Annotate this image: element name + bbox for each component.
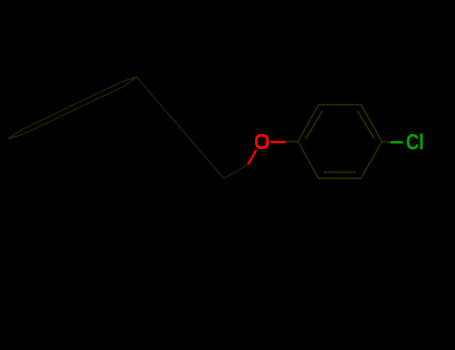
double bond inner line: edge TR-R	[358, 111, 375, 140]
node O: ether oxygen label	[256, 135, 267, 147]
wire: bond C1-O (red)	[248, 151, 256, 165]
double bond inner line: edge BR-BL	[324, 171, 357, 173]
wire: bond ring-Cl green half	[391, 141, 403, 143]
wire: bond O-ring olive half	[286, 141, 298, 143]
wire: chain run apex to C2	[137, 77, 225, 179]
wire: bond C2-C1	[224, 165, 248, 179]
wire: bond ring-Cl olive half	[382, 141, 391, 144]
wire: bond O-ring red half	[271, 141, 287, 143]
benzene ring (para-substituted)	[298, 105, 382, 179]
double bond inner line: edge L-TL	[306, 111, 323, 140]
squashed cyclohexane ring (cigar outline, lower-left)	[8, 77, 137, 139]
svg-text:Cl: Cl	[406, 129, 424, 154]
